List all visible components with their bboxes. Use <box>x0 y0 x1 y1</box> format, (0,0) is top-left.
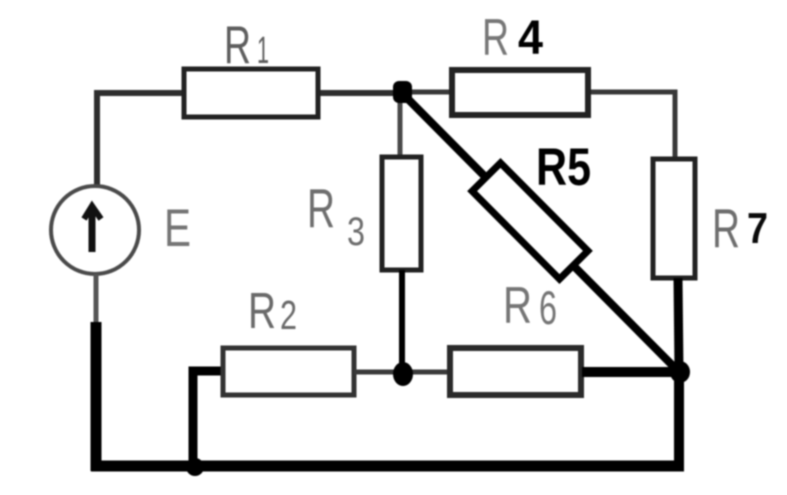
resistor R2 <box>223 282 354 395</box>
svg-text:R: R <box>503 277 532 335</box>
node D junction dot on bottom rail below R2 <box>186 458 204 476</box>
svg-text:2: 2 <box>280 292 297 338</box>
svg-text:R: R <box>307 177 335 239</box>
wire node A to R4 to top-right corner <box>404 90 678 95</box>
wire R7 bottom pin down to node B <box>678 278 679 372</box>
wire left vertical thick down to bottom rail <box>91 322 102 471</box>
wire R2 left pin elbow down to bottom rail <box>193 371 223 464</box>
svg-text:6: 6 <box>539 281 557 334</box>
svg-text:1: 1 <box>257 30 269 72</box>
svg-text:4: 4 <box>518 12 543 65</box>
svg-text:3: 3 <box>347 210 365 254</box>
wire top horizontal from corner through R1 to node A <box>94 90 404 96</box>
svg-text:7: 7 <box>747 204 768 253</box>
wire bottom rail horizontal <box>91 461 684 472</box>
wire node B down to bottom rail <box>674 372 684 471</box>
svg-text:R: R <box>712 197 740 259</box>
node C junction dot (R2/R3/R6 meet) <box>393 362 413 386</box>
svg-text:R: R <box>224 16 251 75</box>
wire diagonal from node A to node B carrying R5 <box>404 95 679 372</box>
svg-text:E: E <box>164 199 191 258</box>
svg-text:R: R <box>482 9 509 67</box>
wire R3 bottom pin down to node C <box>399 270 405 373</box>
node B junction dot (R5/R6/R7 meet) <box>670 361 690 383</box>
wire R6 right pin to node B <box>582 367 679 377</box>
resistor R5 (diagonal body) <box>472 138 591 279</box>
resistor R1 <box>184 16 318 117</box>
wire R2 right pin to node C to R6 left pin <box>354 370 449 375</box>
wire source E bottom stub <box>94 274 99 324</box>
source E (circle with upward arrow) <box>51 186 191 274</box>
svg-text:R: R <box>248 282 276 339</box>
wire top-right corner down to R7 top pin <box>673 90 678 160</box>
resistor R7 <box>653 159 768 278</box>
wire left vertical from top corner down to source E top <box>94 91 100 187</box>
resistor R3 <box>307 157 421 270</box>
resistor R4 <box>452 9 588 115</box>
node A junction dot (R1/R4/R3/R5 meet) <box>393 81 412 103</box>
svg-text:R5: R5 <box>536 138 591 197</box>
resistor R6 <box>450 277 581 395</box>
wire R3 top pin from node A <box>398 93 403 158</box>
